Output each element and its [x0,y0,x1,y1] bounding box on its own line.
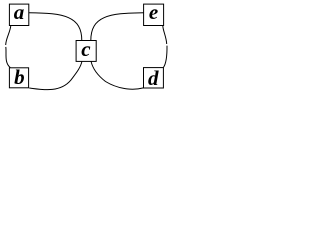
wire e-d right arc upper [163,26,167,44]
svg-text:d: d [148,66,159,90]
wire b-c bottom arc [29,61,82,89]
svg-text:b: b [14,65,25,89]
svg-text:a: a [14,0,25,24]
node a [9,0,28,26]
svg-text:e: e [149,0,158,24]
node e [144,0,164,26]
wire a-b left arc upper [6,26,11,45]
wire c-d bottom arc [91,61,143,89]
node c [76,37,96,62]
wire c-e top arc [91,13,144,41]
node b [9,65,28,89]
wire e-d right arc lower [163,46,167,68]
node d [144,66,164,90]
svg-text:c: c [81,37,91,61]
wire a-b left arc lower [6,47,11,68]
wire a-c top arc [29,13,82,41]
